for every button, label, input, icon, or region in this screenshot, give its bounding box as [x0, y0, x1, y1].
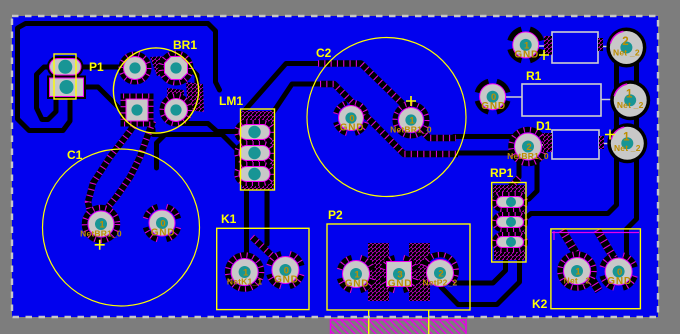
- svg-text:Net _2: Net _2: [613, 48, 640, 58]
- svg-text:GND: GND: [345, 279, 370, 290]
- node C2 pad2 clearance ring: [395, 104, 427, 136]
- P2 hatch band between pad3 and pad2: [409, 243, 430, 301]
- wire stub toward C1 GND: [157, 135, 166, 169]
- node R1 GND thermal: [477, 81, 508, 112]
- node RP1 pad ring y202: [494, 194, 526, 210]
- node RP1 pad ring y222: [494, 214, 526, 230]
- resistor pack RP1 outline: [492, 183, 526, 263]
- pad BR1-4: [165, 99, 188, 122]
- pad P2-3 square: [387, 262, 412, 287]
- pad P2-2: [427, 260, 454, 287]
- pad RP1-1: [497, 197, 524, 208]
- connector P2 tongue below board: [331, 319, 467, 334]
- svg-text:P2: P2: [328, 208, 343, 222]
- wire hatched C2 input lower crossing: [320, 84, 458, 154]
- wire P2 pad2 to RP1 pad3: [443, 244, 506, 283]
- svg-text:NetK1_1: NetK1_1: [227, 277, 262, 287]
- wire LM1 pad2 down right of pad3: [264, 155, 267, 244]
- pad LED1-2 right: [606, 28, 646, 68]
- svg-text:LM1: LM1: [219, 94, 243, 108]
- pad LED1 GND: [513, 32, 539, 58]
- capacitor C1 outline: [43, 149, 200, 306]
- pad BR1-1: [124, 57, 147, 80]
- relay K1 outline: [217, 228, 309, 309]
- pad C1-1: [88, 211, 114, 237]
- wire RP1 pad2 to right column: [523, 45, 617, 221]
- wire BR1 pad4 to LM1 pad1: [176, 108, 240, 132]
- svg-text:NetP2_2: NetP2_2: [423, 278, 458, 288]
- svg-text:RP1: RP1: [490, 166, 514, 180]
- node K1 pad1 clearance ring: [228, 255, 262, 289]
- pad D1-1 right: [607, 123, 647, 163]
- wire hatched D1 to RP1 pad1: [500, 178, 519, 198]
- wire P1 pad1 to BR1 pad1: [78, 65, 135, 70]
- node P2 pad2 clearance arc: [424, 255, 456, 284]
- diode LED1 body: [552, 32, 598, 63]
- RP1 hatch right band: [516, 204, 525, 244]
- polarity plus D1: [605, 130, 615, 140]
- pad P1-1: [50, 59, 82, 76]
- pad RP1-3: [497, 237, 524, 248]
- svg-text:P1: P1: [89, 60, 104, 74]
- node D1 pad2 clearance ring: [511, 130, 545, 164]
- pad LM1-2: [239, 146, 270, 161]
- node K1 GND thermal: [269, 254, 302, 287]
- node BR1 pad2 clearance ring: [161, 53, 191, 83]
- node BR1 pad4 clearance ring: [162, 96, 190, 124]
- svg-text:NetBR1_0: NetBR1_0: [390, 125, 432, 135]
- svg-text:GND: GND: [514, 50, 539, 61]
- wire BR1 pad2 stub: [176, 68, 197, 88]
- svg-text:1: 1: [623, 132, 630, 144]
- wire hatched K2 band 1: [562, 230, 599, 291]
- hatch tick D1 left: [543, 133, 552, 152]
- svg-text:C2: C2: [316, 46, 332, 60]
- node RP1 pad ring y242: [494, 234, 526, 250]
- polarity plus C1: [95, 240, 105, 250]
- wire LM1 to C2 lower: [272, 84, 320, 114]
- pad D1-2: [515, 133, 542, 160]
- node P2 pad1 GND thermal: [340, 258, 373, 291]
- K2 top copper outline: [552, 231, 639, 240]
- connector P2 outline: [327, 224, 470, 310]
- pad K2-1: [564, 258, 591, 285]
- pad K2-0 GND: [605, 258, 632, 285]
- resistor R1 body: [522, 84, 601, 116]
- svg-text:NetBR1_0: NetBR1_0: [80, 229, 122, 239]
- pad P1-2: [50, 78, 84, 97]
- BR1 hatch wedge NE of pad1: [150, 55, 184, 76]
- wire LM1 down to K1 pad1: [244, 176, 249, 267]
- node K2 GND thermal: [602, 255, 635, 288]
- svg-text:R1: R1: [526, 69, 542, 83]
- wire P2 pad2 to RP1 pad2: [441, 225, 524, 305]
- svg-text:C1: C1: [67, 148, 83, 162]
- svg-text:GND: GND: [151, 228, 176, 239]
- svg-text:GND: GND: [340, 123, 365, 134]
- svg-text:1: 1: [626, 89, 633, 101]
- node C1 GND thermal: [146, 207, 179, 240]
- svg-text:GND: GND: [607, 276, 632, 287]
- pad BR1-2 octagon: [165, 57, 188, 80]
- wire LM1 pad2-pad3 left bar: [235, 152, 241, 174]
- BR1 hatch wedge NW of pad3: [131, 98, 151, 123]
- wire hatched BR1 to C1 pad1 band B: [108, 121, 153, 207]
- node LED1 GND thermal top right: [510, 30, 541, 61]
- node C1 pad1 clearance ring: [85, 208, 118, 241]
- pad BR1-3 square: [126, 99, 148, 121]
- wire hatched C2 input upper: [318, 64, 411, 113]
- hatch tick D1 right: [599, 136, 604, 149]
- capacitor C2 outline: [307, 38, 466, 197]
- svg-text:GND: GND: [388, 279, 413, 290]
- node K2 pad1 clearance ring: [560, 254, 594, 288]
- LM1 hatch top patch: [241, 111, 274, 126]
- svg-text:2: 2: [622, 36, 628, 48]
- pad K1-1: [231, 259, 258, 286]
- wire hatched K1 diagonal: [252, 237, 283, 266]
- LM1 hatch bottom patch: [242, 180, 273, 190]
- node BR1 pad3 clearance ring: [123, 96, 151, 124]
- wire right column to K2 GND: [627, 45, 637, 260]
- relay K2 outline: [551, 229, 641, 309]
- node LM1 pad ring y174: [237, 164, 273, 184]
- wire BR1 pad3 to LM1 pad2: [139, 114, 242, 152]
- svg-text:Net _2: Net _2: [617, 100, 644, 110]
- hatch tick LED1 right: [598, 38, 603, 51]
- wire hatched BR1 to C1 pad1 band A: [88, 116, 140, 211]
- diode D1 body: [552, 130, 599, 159]
- svg-text:Net _2: Net _2: [564, 276, 591, 286]
- RP1 hatch top patch: [493, 185, 525, 197]
- wire P1 pad2 to BR1 pad3: [70, 87, 137, 110]
- svg-text:K1: K1: [221, 212, 237, 226]
- node BR1 pad1 clearance ring: [121, 54, 149, 82]
- svg-text:GND: GND: [274, 275, 299, 286]
- pad C1-0 GND: [149, 210, 175, 236]
- wire C2 to D1 lower black part: [456, 151, 516, 156]
- BR1 hatch wedge center: [167, 88, 184, 117]
- svg-text:BR1: BR1: [173, 38, 197, 52]
- wire D1 pad2 down-right to RP1 pad1: [522, 157, 537, 202]
- polarity plus C2: [406, 96, 416, 106]
- pad LM1-1: [239, 125, 270, 140]
- hatch tick LED1 left: [544, 36, 552, 55]
- pad RP1-2: [497, 217, 524, 228]
- bridge rectifier BR1 outline: [113, 48, 198, 133]
- pad K1-0 GND: [272, 257, 299, 284]
- pad P1-2 halo: [47, 76, 86, 100]
- node C2 GND thermal: [336, 103, 367, 134]
- wire hatched K2 band 2: [597, 230, 630, 285]
- RP1 hatch bottom patch: [494, 249, 525, 260]
- pad R1 GND: [480, 84, 506, 110]
- pad P1-1 halo: [47, 56, 84, 78]
- node P2 pad3 GND thermal: [383, 258, 416, 291]
- wire LM1 to C2 upper: [245, 64, 319, 111]
- wire P1 outer serpentine to board edge loop: [18, 24, 220, 131]
- polarity plus LED1: [539, 50, 549, 60]
- pad R1-1 right: [610, 80, 650, 120]
- connector P1 outline: [54, 54, 76, 99]
- P2 hatch band between pad1 and pad3: [368, 243, 389, 301]
- svg-text:GND: GND: [481, 101, 506, 112]
- svg-text:K2: K2: [532, 297, 548, 311]
- wire hatched C2 pad2 output: [412, 121, 456, 138]
- node LM1 pad ring y153: [237, 143, 273, 163]
- pad LM1-3: [239, 167, 270, 182]
- svg-text:NetBR1_0: NetBR1_0: [507, 151, 549, 161]
- pad C2-0 GND: [339, 106, 364, 131]
- wire D1 pad2 down-left to RP1: [519, 157, 524, 177]
- wire P1 inner serpentine: [37, 67, 66, 120]
- node LM1 pad ring y132: [237, 122, 273, 142]
- regulator LM1 outline: [241, 109, 275, 190]
- wire C2 to D1 upper black part: [454, 137, 530, 146]
- LM1 hatch right band: [265, 126, 275, 188]
- svg-text:D1: D1: [536, 119, 552, 133]
- svg-text:Net _2: Net _2: [614, 143, 641, 153]
- pad P2-1: [343, 261, 370, 288]
- BR1 hatch wedge SE of pad2: [186, 82, 204, 112]
- pad C2-1: [399, 108, 424, 133]
